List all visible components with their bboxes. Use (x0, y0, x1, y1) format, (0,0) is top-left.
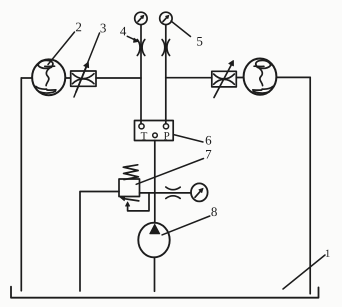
adjustable throttle valve right body (212, 71, 237, 87)
throttle valve 3 body (71, 71, 96, 86)
label 1 (325, 248, 331, 260)
svg-text:7: 7 (205, 147, 212, 162)
leader 7 (136, 159, 203, 185)
flow indicator 2 top curl (38, 60, 55, 68)
flow indicator right body (244, 59, 277, 95)
manifold block 6 label P (164, 130, 170, 142)
leader 3 (74, 33, 100, 97)
pump 8 body (138, 223, 169, 258)
manifold block 6 body (135, 121, 174, 141)
flow indicator right interior curls (253, 60, 273, 93)
label 4 (120, 23, 127, 38)
wire left frame vertical (20, 78, 22, 291)
pressure gauge 5 line riser right (165, 25, 167, 124)
wire main pressure line (154, 141, 156, 223)
orifice arcs on gauge branch (166, 187, 180, 199)
label 5 (196, 34, 203, 49)
relief valve 7 pilot loop (126, 193, 150, 211)
label 8 (211, 204, 218, 219)
pressure gauge left needle (138, 15, 144, 21)
pressure gauge right needle (163, 15, 169, 21)
pressure gauge lower needle (195, 188, 203, 197)
leader 5 (171, 21, 191, 37)
throttle valve 3 adjustment arrow (76, 62, 89, 92)
wire pump suction (154, 258, 156, 291)
leader 4 with arrowhead (127, 36, 138, 42)
wire right valve to right circle (236, 77, 243, 79)
leader 2 (48, 32, 75, 65)
orifice arcs on right riser (162, 40, 170, 56)
wire left frame top segment (21, 77, 32, 79)
manifold block 6 label T (141, 130, 148, 142)
flow indicator 2 middle squiggle (46, 68, 49, 85)
leader 6 (173, 135, 203, 143)
pump 8 outlet triangle (150, 224, 160, 233)
pressure gauge left body (135, 12, 147, 24)
flow indicator 2 body (32, 59, 65, 95)
orifice 4 arcs on left riser (137, 40, 145, 56)
pressure gauge 4 line riser left (140, 25, 142, 124)
pressure gauge lower body (191, 183, 208, 201)
manifold block 6 port A circle (139, 124, 144, 129)
throttle valve 3 venturi arcs (73, 74, 95, 84)
label 6 (205, 133, 212, 148)
svg-text:4: 4 (120, 23, 127, 38)
relief valve 7 body (119, 179, 140, 197)
wire valve3 to left riser (96, 77, 141, 79)
adjustable throttle valve right venturi arcs (214, 74, 235, 84)
wire relief valve inlet branch and gauge branch (140, 192, 191, 194)
svg-text:2: 2 (75, 19, 82, 34)
svg-text:1: 1 (325, 248, 331, 260)
flow indicator 2 bottom curl (36, 86, 56, 93)
wire right frame vertical (309, 77, 311, 293)
label 7 (205, 147, 212, 162)
manifold block 6 center port circle (153, 133, 158, 138)
svg-text:6: 6 (205, 133, 212, 148)
svg-text:5: 5 (196, 34, 203, 49)
tank 1 outline (11, 287, 319, 298)
svg-text:T: T (141, 130, 148, 142)
relief valve 7 internal arrow (120, 196, 139, 201)
pressure gauge right body (160, 12, 172, 24)
svg-text:8: 8 (211, 204, 218, 219)
wire relief valve outlet to tank line (80, 192, 119, 292)
leader 1 (283, 255, 325, 289)
label 2 (75, 19, 82, 34)
wire right circle to right frame (276, 76, 310, 78)
wire right riser to valve right (166, 77, 212, 79)
leader 8 (162, 216, 210, 235)
wire circle2 to valve3 (65, 77, 70, 79)
label 3 (100, 20, 107, 35)
adjustable throttle valve right adjustment arrow (214, 61, 233, 98)
svg-text:3: 3 (100, 20, 107, 35)
svg-text:P: P (164, 130, 170, 142)
relief valve 7 spring (123, 165, 138, 180)
manifold block 6 port B circle (163, 124, 168, 129)
